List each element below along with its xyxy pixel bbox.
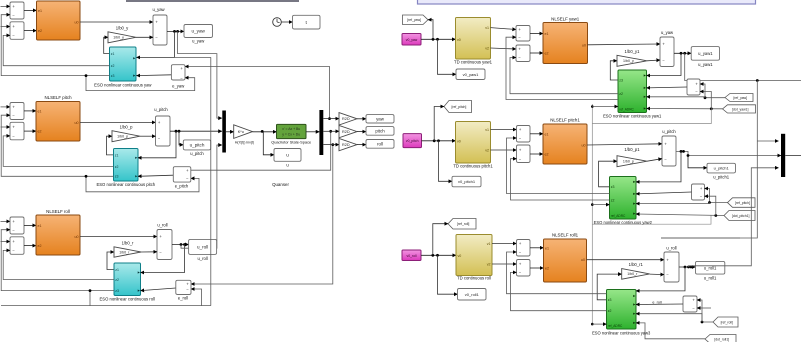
wire: [1, 305, 211, 307]
svg-text:u: u: [286, 153, 289, 158]
wire: [323, 118, 339, 120]
wire: [24, 245, 36, 247]
svg-text:[ref_yaw]: [ref_yaw]: [733, 96, 747, 100]
svg-text:v1: v1: [485, 128, 489, 132]
sum S_roll_ref: [10, 217, 24, 234]
svg-text:u_pitch1: u_pitch1: [714, 166, 730, 171]
svg-text:u_yaw: u_yaw: [661, 30, 674, 35]
subsystem NLSELF pitch1: [543, 118, 587, 165]
label e_roll right: [652, 301, 661, 305]
svg-text:u0: u0: [75, 21, 79, 25]
svg-text:z2: z2: [115, 165, 119, 169]
svg-text:[ref_yaw]: [ref_yaw]: [407, 18, 421, 22]
wire: [530, 133, 543, 135]
wire: [757, 140, 778, 142]
svg-text:[ref_roll]: [ref_roll]: [457, 222, 469, 226]
block t: [293, 15, 321, 29]
wire: [24, 30, 37, 32]
wire: [647, 96, 706, 99]
svg-text:NLSELF yaw1: NLSELF yaw1: [551, 16, 580, 21]
wire: [1, 115, 113, 176]
svg-text:v1: v1: [485, 26, 489, 30]
wire: [511, 159, 610, 200]
svg-text:1/b0_p1: 1/b0_p1: [624, 147, 640, 152]
wire: [587, 259, 665, 261]
sum S_yaw_ref: [10, 2, 24, 19]
svg-text:roll: roll: [377, 141, 383, 146]
wire: [1, 126, 11, 128]
svg-text:ESO nonlinear continuous yaw1: ESO nonlinear continuous yaw1: [603, 114, 662, 119]
label u_yaw above sum: [152, 7, 165, 12]
svg-text:z3: z3: [611, 185, 615, 189]
wire: [3, 136, 113, 167]
tag from ref_pitch: [728, 198, 756, 208]
label e_pitch: [175, 184, 189, 189]
wire: [172, 243, 189, 246]
svg-text:1/b0_y: 1/b0_y: [116, 25, 129, 30]
sum S_e_roll1: [683, 296, 697, 312]
clock: [273, 18, 282, 27]
gain 1/b0_r: [114, 240, 141, 257]
wire: [491, 129, 517, 131]
svg-text:z3: z3: [619, 78, 623, 82]
wire: [137, 74, 172, 77]
svg-text:e_roll: e_roll: [652, 301, 661, 305]
wire: [421, 254, 456, 257]
svg-text:u0: u0: [75, 121, 79, 125]
wire: [107, 136, 114, 155]
svg-text:v0: v0: [458, 254, 462, 258]
svg-text:v0_yaw1: v0_yaw1: [463, 72, 480, 77]
svg-text:u_yaw: u_yaw: [192, 29, 206, 34]
wire: [89, 289, 92, 305]
wire right-edge stub: [661, 237, 740, 239]
svg-text:u_roll: u_roll: [157, 222, 167, 227]
wire: [24, 224, 36, 226]
subsystem TD continuous yaw1: [454, 18, 493, 65]
wire: [421, 38, 456, 41]
svg-text:v1: v1: [487, 242, 491, 246]
block v0_yaw1: [456, 69, 485, 80]
svg-text:1/b0_y1: 1/b0_y1: [625, 49, 641, 54]
svg-text:v2: v2: [487, 263, 491, 267]
svg-text:e2: e2: [38, 244, 42, 248]
sum S_u_roll1: [664, 252, 679, 282]
wire: [85, 175, 199, 192]
svg-text:v0_pitch1: v0_pitch1: [458, 179, 476, 184]
subsystem TD continuous pitch1: [453, 122, 493, 169]
block display roll: [366, 140, 394, 149]
subsystem ESO nonlinear continuous roll: [99, 263, 154, 302]
block u_pitch1: [707, 163, 736, 179]
svg-text:TD continuous pitch1: TD continuous pitch1: [453, 163, 493, 168]
svg-text:1/b0_r: 1/b0_r: [119, 250, 130, 254]
tag goto ref_roll: [448, 219, 476, 230]
wire: [530, 267, 544, 269]
svg-text:ref_ADRC: ref_ADRC: [608, 324, 623, 328]
wire: [685, 53, 801, 82]
svg-text:ref_ADRC: ref_ADRC: [611, 214, 626, 218]
sum S_roll_dot: [10, 237, 24, 255]
svg-text:e2: e2: [545, 153, 549, 157]
svg-text:z1: z1: [115, 153, 119, 157]
wire: [647, 159, 662, 162]
label u_pitch above sum: [154, 107, 168, 112]
wire: [636, 151, 681, 182]
label e_yaw: [172, 84, 185, 89]
tag goto ref_yaw: [403, 15, 429, 25]
wire: [24, 110, 36, 112]
svg-text:[ref_roll]: [ref_roll]: [721, 320, 733, 324]
svg-text:[dot_yaw1]: [dot_yaw1]: [732, 107, 748, 111]
wire: [422, 139, 456, 142]
svg-text:K*u: K*u: [238, 130, 244, 134]
svg-text:z1: z1: [111, 52, 115, 56]
label e_roll: [178, 296, 188, 301]
wire: [700, 92, 711, 109]
wire: [104, 37, 110, 53]
svg-text:u0: u0: [582, 144, 586, 148]
sum S_e_pitch1: [692, 184, 705, 200]
wire: [226, 131, 234, 133]
wire: [323, 130, 339, 132]
wire: [705, 189, 728, 204]
block display pitch: [366, 127, 394, 136]
subsystem ESO nonlinear continuous yaw1: [603, 70, 662, 119]
wire: [507, 138, 610, 194]
subsystem NLSELF yaw: [37, 1, 81, 40]
svg-text:1/b0_p: 1/b0_p: [623, 160, 634, 164]
svg-text:ESO nonlinear continuous roll: ESO nonlinear continuous roll: [99, 297, 154, 302]
wire: [175, 56, 211, 58]
svg-text:R2D: R2D: [342, 130, 350, 134]
wire: [253, 130, 277, 133]
svg-text:[ref_pitch]: [ref_pitch]: [451, 105, 466, 109]
subsystem NLSELF roll1: [544, 232, 587, 282]
block v0_pitch1: [452, 176, 481, 187]
svg-text:z1: z1: [115, 268, 119, 272]
wire: [647, 59, 660, 62]
svg-text:z2: z2: [611, 198, 615, 202]
svg-text:u_pitch: u_pitch: [190, 143, 205, 148]
wire: [530, 33, 543, 35]
svg-text:R2D: R2D: [342, 143, 350, 147]
annotation lavender box (cut off at top): [418, 0, 756, 4]
wire: [141, 251, 157, 253]
wire: [592, 204, 609, 206]
svg-text:v2: v2: [485, 47, 489, 51]
block u_yaw1: [691, 47, 719, 67]
block u_roll: [189, 239, 217, 261]
source v0_yaw: [402, 34, 421, 46]
wire: [141, 245, 185, 273]
svg-text:u_pitch: u_pitch: [662, 129, 676, 134]
block v0_roll1: [458, 289, 487, 301]
wire: [697, 300, 713, 323]
svg-text:u_yaw1: u_yaw1: [698, 62, 713, 67]
wire: [647, 107, 723, 110]
svg-text:z3: z3: [115, 175, 119, 179]
sum S_u_roll: [157, 230, 172, 260]
svg-text:x' = Ax + Bu: x' = Ax + Bu: [282, 127, 300, 131]
sum S_roll1_b: [517, 260, 531, 277]
sum S_yaw_dot: [10, 22, 24, 40]
subsystem NLSELF pitch: [36, 95, 80, 141]
wire: [661, 81, 757, 239]
tag from ref_roll: [713, 317, 738, 327]
wire: [647, 53, 682, 75]
wire: [428, 20, 433, 40]
wire: [592, 323, 606, 325]
wire: [1, 5, 11, 7]
label u_roll right: [666, 245, 676, 250]
mux demux outputs: [319, 110, 323, 155]
wire: [491, 28, 517, 30]
svg-text:e_pitch: e_pitch: [175, 184, 189, 189]
wire: [438, 39, 457, 74]
sum S_yaw1_a: [516, 26, 530, 42]
wire: [491, 48, 517, 49]
wire: [140, 135, 156, 137]
svg-text:v0_roll1: v0_roll1: [465, 292, 480, 297]
sum S_e_pitch: [173, 167, 191, 182]
svg-text:1/b0_y: 1/b0_y: [623, 59, 634, 63]
subsystem TD continuous roll: [456, 235, 492, 281]
wire: [138, 131, 176, 158]
state-space Quadrotor: [271, 124, 311, 144]
svg-text:e2: e2: [38, 130, 42, 134]
wire: [1, 26, 11, 28]
svg-text:Quadrotor State-Space: Quadrotor State-Space: [271, 140, 311, 145]
label H inv: [235, 140, 254, 144]
svg-text:1/b0_p: 1/b0_p: [117, 135, 128, 139]
wire: [1, 220, 11, 222]
wire: [492, 263, 517, 265]
svg-text:NLSELF pitch: NLSELF pitch: [44, 95, 72, 100]
wire: [141, 288, 176, 291]
svg-text:e2: e2: [545, 52, 549, 56]
block u_roll1: [696, 261, 725, 280]
subsystem NLSELF yaw1: [543, 16, 588, 63]
label Quanser: [272, 182, 289, 187]
wire: [636, 267, 685, 291]
svg-text:v0: v0: [457, 139, 461, 143]
wire: [689, 168, 779, 267]
wire: [357, 144, 366, 146]
svg-text:NLSELF pitch1: NLSELF pitch1: [550, 118, 580, 123]
tag goto ref_pitch: [444, 101, 472, 113]
svg-text:v0_pitch: v0_pitch: [406, 139, 419, 143]
svg-text:NLSELF roll1: NLSELF roll1: [552, 232, 579, 237]
wire ref vertical: [591, 104, 594, 325]
sum S_u_pitch1: [662, 136, 676, 166]
gain 1/b0_p1: [617, 147, 647, 167]
wire: [785, 155, 801, 157]
wire: [636, 314, 702, 322]
wire: [433, 224, 448, 256]
gain 1/b0_r1: [622, 262, 650, 279]
wire: [167, 30, 184, 33]
mux mux attitude: [781, 134, 785, 177]
wire: [185, 67, 331, 121]
svg-text:v2: v2: [485, 149, 489, 153]
svg-text:1/b0_p: 1/b0_p: [120, 124, 133, 129]
wire: [138, 175, 173, 176]
svg-text:u_yaw: u_yaw: [152, 7, 165, 12]
sum S_u_yaw: [153, 15, 167, 45]
svg-text:u0: u0: [75, 235, 79, 239]
svg-text:v0_roll: v0_roll: [407, 254, 417, 258]
label u_roll above sum: [157, 222, 167, 227]
svg-text:Quanser: Quanser: [272, 182, 289, 187]
svg-text:[dot_roll1]: [dot_roll1]: [714, 337, 729, 341]
svg-text:e1: e1: [38, 224, 42, 228]
svg-text:e2: e2: [545, 267, 549, 271]
wire: [181, 145, 222, 248]
svg-text:z2: z2: [111, 64, 115, 68]
wire: [434, 107, 444, 141]
wire: [679, 266, 696, 269]
svg-text:TD continuous yaw1: TD continuous yaw1: [454, 60, 493, 65]
svg-text:e1: e1: [545, 132, 549, 136]
wire: [636, 203, 710, 204]
svg-text:v0_yaw: v0_yaw: [406, 38, 418, 42]
svg-text:[ref_pitch]: [ref_pitch]: [735, 201, 750, 205]
svg-text:e1: e1: [545, 32, 549, 36]
wire: [530, 153, 543, 155]
gain 1/b0_p: [112, 124, 140, 141]
wire: [597, 274, 622, 300]
svg-text:1/b0_y: 1/b0_y: [113, 36, 124, 40]
gain R2D yaw: [339, 113, 357, 125]
wire: [1, 106, 11, 108]
svg-text:[dot_pitch1]: [dot_pitch1]: [732, 214, 750, 218]
wire: [610, 61, 618, 80]
wire: [636, 192, 692, 194]
wire: [506, 37, 618, 99]
gain 1/b0_y: [108, 25, 136, 43]
source v0_roll: [402, 250, 421, 261]
wire: [636, 303, 683, 306]
svg-text:z2: z2: [608, 309, 612, 313]
wire: [592, 106, 618, 108]
source v0_pitch: [403, 134, 422, 148]
wire: [636, 323, 705, 339]
svg-text:yaw: yaw: [376, 116, 385, 121]
tag from dot_roll1: [705, 335, 736, 342]
svg-text:u_yaw: u_yaw: [192, 39, 205, 44]
wire: [187, 130, 332, 170]
svg-text:ESO nonlinear continuous yaw: ESO nonlinear continuous yaw: [94, 83, 152, 88]
wire: [179, 131, 183, 145]
gain 1/b0_y1: [617, 49, 647, 67]
subsystem ESO nonlinear continuous pitch: [96, 149, 155, 188]
svg-text:u0: u0: [581, 258, 585, 262]
wire: [306, 131, 319, 133]
svg-text:R2D: R2D: [342, 117, 350, 121]
sum S_yaw1_b: [516, 45, 530, 62]
subsystem ESO nonlinear continuous yaw3: [592, 290, 651, 336]
wire: [24, 130, 36, 132]
sum S_u_yaw1: [660, 37, 674, 67]
svg-text:u_roll1: u_roll1: [704, 276, 717, 281]
svg-text:NLSELF roll: NLSELF roll: [46, 209, 70, 214]
wire: [587, 144, 662, 145]
sum S_pitch_ref: [10, 103, 24, 120]
wire: [530, 247, 544, 249]
gain H inv: [234, 125, 253, 139]
wire: [510, 58, 618, 94]
svg-text:u_pitch: u_pitch: [190, 151, 204, 156]
wire: [85, 74, 195, 90]
block u_pitch: [183, 140, 210, 156]
wire: [3, 250, 114, 279]
wire: [170, 130, 222, 133]
svg-text:u_roll: u_roll: [197, 245, 208, 250]
sum S_roll1_a: [517, 240, 531, 257]
wire: [191, 289, 202, 306]
wire: [137, 31, 175, 57]
wire: [507, 252, 607, 294]
wire: [650, 273, 664, 276]
wire: [530, 52, 543, 54]
block display yaw: [366, 115, 394, 123]
wire: [323, 144, 339, 146]
wire: [599, 161, 617, 187]
svg-text:u_roll: u_roll: [197, 256, 207, 261]
tag from dot_pitch1: [724, 211, 755, 221]
sum S_e_yaw1: [687, 79, 700, 95]
subsystem ESO nonlinear continuous yaw: [94, 47, 152, 88]
svg-text:u_pitch: u_pitch: [154, 107, 168, 112]
svg-text:e2: e2: [38, 29, 42, 33]
wire: [676, 150, 781, 156]
svg-text:TD continuous roll: TD continuous roll: [457, 276, 491, 281]
wire: [1, 15, 109, 76]
subsystem NLSELF roll: [36, 209, 80, 255]
wire: [136, 36, 153, 38]
wire: [1, 230, 114, 291]
wire: [3, 35, 109, 65]
wire: [210, 57, 212, 305]
svg-text:e1: e1: [38, 109, 42, 113]
svg-text:e_yaw: e_yaw: [172, 84, 185, 89]
sum S_e_yaw: [171, 65, 185, 81]
sum S_pitch1_b: [517, 145, 531, 163]
wire: [281, 21, 292, 23]
sum S_pitch_dot: [10, 122, 24, 140]
svg-text:u_pitch1: u_pitch1: [713, 175, 730, 180]
wire: [491, 149, 517, 151]
svg-text:ESO nonlinear continuous pitch: ESO nonlinear continuous pitch: [96, 182, 155, 187]
wire: [511, 272, 607, 310]
wire: [700, 84, 725, 99]
block u: [274, 149, 301, 168]
tag from ref_yaw: [725, 94, 753, 102]
svg-text:1/b0_r1: 1/b0_r1: [629, 262, 644, 267]
svg-text:z3: z3: [608, 298, 612, 302]
sum S_e_roll: [176, 280, 191, 294]
svg-text:ESO nonlinear continuous yaw3: ESO nonlinear continuous yaw3: [592, 331, 651, 336]
svg-text:z2: z2: [619, 92, 623, 96]
sum S_pitch1_a: [517, 126, 531, 143]
wire: [357, 118, 366, 120]
block u_yaw: [184, 25, 213, 44]
wire area outline pitch1: [592, 216, 711, 225]
wire: [1, 241, 11, 243]
wire: [439, 141, 453, 182]
wire: [178, 31, 222, 118]
